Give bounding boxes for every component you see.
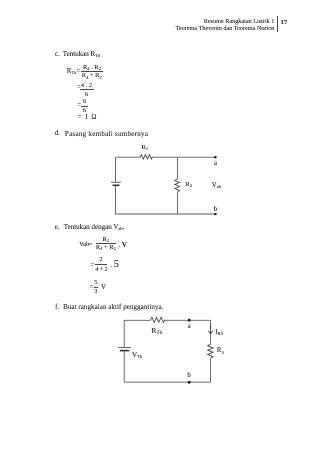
label RTh	[151, 326, 162, 335]
wire: right vertical lower	[210, 358, 212, 382]
wire: right vertical upper	[210, 320, 212, 344]
wire: top right segment to terminal a	[152, 156, 216, 158]
wire: bottom	[124, 381, 210, 383]
item e heading	[55, 223, 60, 231]
label R1	[142, 144, 149, 151]
eq c line 2: = 4.2 / 6	[77, 84, 81, 91]
label IR3	[215, 329, 223, 336]
battery source: long plate	[111, 181, 121, 183]
resistor R2 (vertical)	[175, 179, 180, 191]
wire: top right segment past node a	[165, 319, 211, 321]
node a (terminal dot)	[214, 156, 217, 159]
header page number 17	[281, 19, 288, 26]
wire: left vertical lower	[115, 186, 117, 214]
battery source: short plate	[113, 184, 120, 186]
item d heading	[55, 129, 60, 137]
header divider bar	[277, 16, 278, 33]
node a dot	[188, 319, 191, 322]
item f heading	[55, 303, 59, 311]
eq c line 1: RTh = R4.R2 / R4+R2	[67, 68, 81, 75]
label R3	[217, 346, 224, 354]
wire: middle branch upper	[176, 157, 178, 179]
label a	[214, 160, 217, 167]
battery VTh: long plate	[118, 347, 131, 349]
resistor RTh	[150, 317, 164, 322]
eq c line 3: = 6 / 6	[78, 102, 82, 109]
eq e line 3: = 5/3 V	[89, 284, 93, 291]
label VTh	[132, 350, 142, 359]
header line 1	[176, 18, 275, 34]
resistor R1	[140, 155, 153, 159]
eq c line 4: = 1 ohm	[78, 114, 97, 121]
battery VTh: short plate	[120, 350, 130, 352]
wire: left vertical upper	[123, 320, 125, 347]
label R2	[185, 181, 192, 188]
wire: top left segment to RTh	[124, 319, 150, 321]
wire: middle branch lower	[176, 192, 178, 214]
node b (terminal dot)	[214, 213, 217, 216]
wire: top left segment to R1	[116, 156, 141, 158]
current arrow IR3	[208, 324, 212, 334]
wire: bottom	[116, 213, 216, 215]
label b	[214, 206, 217, 213]
item c heading	[55, 50, 60, 58]
node b dot	[188, 381, 191, 384]
wire: left vertical upper	[115, 157, 117, 182]
label a (circuit 2)	[188, 323, 191, 330]
eq e line 2: = 2/(4+2) . 5	[90, 262, 94, 269]
eq e line 1: Vab = R2/(R4+R2) . V	[79, 241, 89, 248]
label Vab	[212, 182, 221, 189]
resistor R3 (vertical)	[208, 344, 213, 358]
wire: left vertical lower	[123, 351, 125, 382]
label b (circuit 2)	[187, 372, 190, 379]
